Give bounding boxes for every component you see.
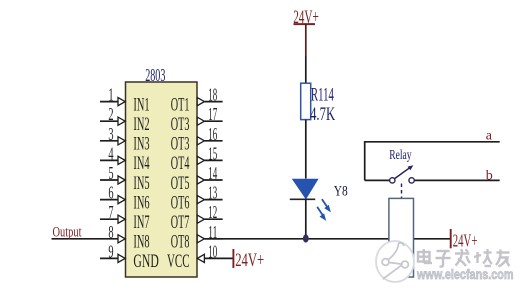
- svg-text:OT4: OT4: [171, 153, 190, 174]
- svg-text:7: 7: [108, 202, 113, 222]
- switch contact circle right: [409, 178, 414, 183]
- svg-text:Output: Output: [53, 225, 83, 241]
- svg-text:OT7: OT7: [171, 212, 190, 233]
- wire pin 14: [204, 179, 222, 181]
- wire pin 12: [204, 218, 222, 220]
- wire pin 1 (IN1): [100, 101, 118, 103]
- wire pin 11 to relay coil (left segment): [204, 238, 389, 240]
- pin 3 arrowhead: [118, 137, 125, 145]
- actuator dashed link: [401, 184, 403, 199]
- wire pin 2 (IN2): [100, 120, 118, 122]
- wire pin 13: [204, 199, 222, 201]
- svg-text:a: a: [486, 129, 493, 144]
- pin 6 arrowhead: [118, 196, 125, 204]
- pin 4 arrowhead: [118, 156, 125, 164]
- wire pin 7 (IN7): [100, 218, 118, 220]
- svg-text:OT1: OT1: [171, 94, 190, 115]
- pin 10 arrowhead (points into IC): [197, 254, 204, 262]
- LED Y8 cathode bar: [290, 198, 315, 200]
- wire vertical to switch: [364, 141, 366, 180]
- IC U1 2803 body: [126, 65, 198, 277]
- svg-text:2: 2: [108, 104, 113, 124]
- wire LED to node: [305, 200, 307, 239]
- pin 1 arrowhead: [118, 98, 125, 106]
- svg-text:Relay: Relay: [389, 147, 412, 162]
- svg-text:www.elecfans.com: www.elecfans.com: [416, 266, 513, 282]
- LED emission arrow 1: [322, 199, 331, 212]
- svg-text:GND: GND: [133, 251, 158, 272]
- wire R114 to LED: [305, 120, 307, 179]
- svg-text:IN5: IN5: [133, 173, 149, 194]
- svg-text:IN3: IN3: [133, 134, 149, 155]
- pin 7 arrowhead: [118, 215, 125, 223]
- svg-text:4.7K: 4.7K: [310, 104, 335, 125]
- wire pin 10 (VCC) to power port: [204, 257, 233, 259]
- svg-text:6: 6: [108, 183, 113, 203]
- wire pin 4 (IN4): [100, 159, 118, 161]
- watermark text you (friend): [496, 250, 510, 267]
- power port 24V+ (top) bar: [294, 23, 316, 25]
- svg-text:IN1: IN1: [133, 94, 149, 115]
- svg-text:IN4: IN4: [133, 153, 149, 174]
- svg-text:OT6: OT6: [171, 192, 190, 213]
- wire pin 17: [204, 120, 222, 122]
- svg-text:Y8: Y8: [334, 184, 348, 200]
- svg-text:8: 8: [108, 222, 113, 242]
- pin 5 arrowhead: [118, 176, 125, 184]
- svg-text:24V+: 24V+: [453, 230, 478, 250]
- svg-text:OT8: OT8: [171, 232, 190, 253]
- svg-text:1: 1: [108, 85, 113, 105]
- switch blade arrowhead: [408, 165, 414, 170]
- svg-text:IN7: IN7: [133, 212, 149, 233]
- svg-text:4: 4: [108, 143, 113, 163]
- pin 14 arrowhead: [197, 176, 204, 184]
- relay coil body: [389, 198, 414, 277]
- svg-text:5: 5: [108, 163, 113, 183]
- watermark text dian (electric): [418, 249, 432, 263]
- svg-text:VCC: VCC: [167, 251, 190, 272]
- wire pin 6 (IN6): [100, 199, 118, 201]
- watermark text zi (child): [436, 251, 451, 267]
- pin 9 arrowhead: [118, 254, 125, 262]
- wire switch right contact to b: [414, 179, 500, 181]
- switch contact circle left: [390, 178, 395, 183]
- pin 18 arrowhead: [197, 98, 204, 106]
- wire pin 9 (GND): [100, 257, 118, 259]
- wire pin 3 (IN3): [100, 140, 118, 142]
- svg-text:9: 9: [108, 241, 113, 261]
- wire pin 8 (IN8): [52, 238, 119, 240]
- watermark text fa (emit): [455, 249, 470, 266]
- svg-text:2803: 2803: [145, 65, 165, 85]
- svg-text:24V+: 24V+: [235, 250, 264, 271]
- wire to switch left contact: [365, 179, 390, 181]
- pin 13 arrowhead: [197, 196, 204, 204]
- wire power to R114: [305, 56, 307, 84]
- pin 15 arrowhead: [197, 156, 204, 164]
- svg-text:OT3: OT3: [171, 114, 190, 135]
- pin 2 arrowhead: [118, 117, 125, 125]
- pin 17 arrowhead: [197, 117, 204, 125]
- svg-text:OT5: OT5: [171, 173, 190, 194]
- svg-text:3: 3: [108, 124, 113, 144]
- pin 16 arrowhead: [197, 137, 204, 145]
- svg-text:R114: R114: [311, 85, 334, 106]
- switch blade: [395, 167, 411, 179]
- wire pin 11: [204, 238, 222, 240]
- power port 24V+ (pin 10) bar: [232, 249, 234, 268]
- svg-text:IN6: IN6: [133, 192, 149, 213]
- svg-text:IN8: IN8: [133, 232, 149, 253]
- wire relay coil to 24V+ (right segment): [414, 238, 451, 240]
- pin 12 arrowhead: [197, 215, 204, 223]
- wire pin 18: [204, 101, 222, 103]
- svg-text:OT3: OT3: [171, 134, 190, 155]
- wire contact a: [365, 141, 500, 143]
- wire pin 5 (IN5): [100, 179, 118, 181]
- watermark logo circle: [376, 241, 414, 282]
- resistor R114 body: [301, 83, 311, 119]
- wire pin 15: [204, 159, 222, 161]
- power port 24V+ (relay) bar: [450, 229, 452, 248]
- svg-text:b: b: [486, 168, 493, 183]
- watermark text shao (burn): [474, 249, 492, 266]
- pin 8 arrowhead: [118, 235, 125, 243]
- junction node LED/pin11: [303, 234, 309, 242]
- power port stem: [305, 24, 307, 56]
- LED Y8 triangle (anode): [293, 179, 318, 198]
- LED emission arrow 2: [317, 207, 326, 221]
- svg-text:IN2: IN2: [133, 114, 149, 135]
- wire pin 16: [204, 140, 222, 142]
- pin 11 arrowhead: [197, 235, 204, 243]
